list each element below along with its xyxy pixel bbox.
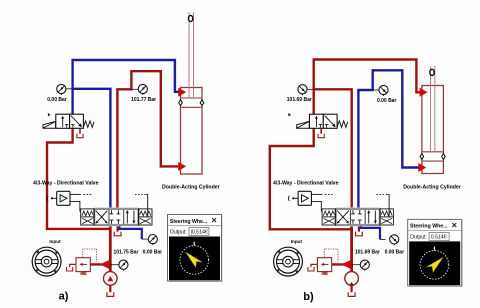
- svg-text:101.77 Bar: 101.77 Bar: [131, 97, 156, 103]
- pressure gauge b top-left 101.69 Bar: [298, 85, 307, 96]
- stub: a pump gauge connection: [110, 264, 119, 266]
- wire: a 3/2 tank stub: [79, 128, 81, 133]
- pressure gauge a tank branch 0.00 Bar: [148, 235, 157, 246]
- tank symbol at b relief valve: [308, 267, 314, 271]
- pressure relief valve a: [76, 258, 90, 275]
- pressure relief valve b: [317, 258, 331, 275]
- svg-text:Double-Acting Cylinder: Double-Acting Cylinder: [162, 184, 220, 190]
- svg-text:0.00 Bar: 0.00 Bar: [385, 249, 405, 255]
- tank symbol under b 3/2 valve: [318, 134, 324, 138]
- pilot line a relief valve (dashed): [83, 249, 97, 262]
- wire: a relief branch line: [90, 263, 110, 265]
- label b): [303, 291, 314, 303]
- output window b (Steering Wheel, arrow NE): [408, 219, 463, 287]
- stub: b pump gauge connection: [352, 264, 361, 266]
- label a): [59, 290, 69, 302]
- svg-text:Output:: Output:: [410, 235, 427, 241]
- wire: a red net B-line (valve B port - gauge - cylinder bottom): [117, 71, 178, 209]
- wire: a blue tank-gauge branch: [119, 225, 141, 239]
- pressure gauge b pump 101.69 Bar: [360, 260, 369, 271]
- steering wheel input a: [32, 247, 61, 276]
- label 4/3-Way - Directional Valve (a): [33, 181, 99, 187]
- port nubs b 4/3 valve: [350, 207, 361, 227]
- svg-text:101.69 Bar: 101.69 Bar: [287, 97, 312, 103]
- wire: a pump to tank: [109, 285, 111, 292]
- wire: b pump pressure line P: [350, 225, 353, 272]
- label 0.00 Bar (b top): [377, 98, 397, 104]
- wire: a pump pressure line P: [109, 225, 112, 272]
- flow arrow into b cylinder top port: [420, 88, 428, 97]
- stub: b 101.69 Bar gauge connection (top left): [307, 88, 314, 90]
- wire: a red 3/2 valve supply loop: [47, 128, 110, 229]
- wire: b blue tank-gauge branch: [361, 225, 380, 239]
- proportional amplifier b: [288, 191, 311, 205]
- wire: b red 3/2 valve supply loop: [270, 128, 352, 229]
- label 0.00 Bar (a top-left): [47, 97, 67, 103]
- tank symbol under a pump: [107, 292, 114, 296]
- svg-text:101.69 Bar: 101.69 Bar: [355, 249, 380, 255]
- label 101.69 Bar (b top-left): [287, 97, 312, 103]
- steering wheel input b: [274, 247, 303, 276]
- label 0.00 Bar (a tank branch): [143, 249, 163, 255]
- svg-text:Double-Acting Cylinder: Double-Acting Cylinder: [403, 184, 461, 190]
- double-acting cylinder b (retracted): [420, 66, 445, 173]
- 4/3-way proportional directional valve a: [81, 209, 152, 225]
- port nubs a 4/3 valve: [109, 207, 120, 227]
- wire: b red net A-line (3/2 valve - gauge - valve A port - cylinder top): [314, 60, 422, 209]
- tank symbol under b 4/3 valve: [356, 232, 363, 236]
- wire: a relief valve to tank: [70, 264, 76, 267]
- svg-text:Input: Input: [291, 239, 303, 244]
- svg-text:|0.514€: |0.514€: [191, 230, 208, 236]
- stub: a 0.00 Bar gauge connection (top left): [66, 88, 73, 90]
- wire: a blue net A-line (3/2 valve - gauge - valve A port - cylinder top): [73, 60, 180, 209]
- label Double-Acting Cylinder (a): [162, 184, 220, 190]
- svg-text:0.00 Bar: 0.00 Bar: [143, 249, 163, 255]
- label 101.77 Bar (a top-right): [131, 97, 156, 103]
- 3/2-way valve a (pedal, spring return): [43, 114, 94, 128]
- svg-text:Input: Input: [49, 239, 61, 244]
- pressure gauge b tank branch 0.00 Bar: [390, 235, 399, 246]
- svg-text:4/3-Way - Directional Valve: 4/3-Way - Directional Valve: [273, 181, 339, 187]
- label Input (a): [49, 239, 61, 244]
- 3/2-way valve b (pedal actuated position): [297, 114, 348, 128]
- pressure gauge a top-right 101.77 Bar: [138, 84, 147, 95]
- flow arrow into a cylinder top port: [178, 88, 186, 97]
- svg-text:a): a): [59, 290, 69, 302]
- svg-text:0.00 Bar: 0.00 Bar: [377, 98, 397, 104]
- wire: b 3/2 tank stub: [320, 128, 322, 133]
- label 4/3-Way - Directional Valve (b): [273, 181, 339, 187]
- proportional amplifier a: [47, 191, 70, 205]
- svg-text:Steering Whe...: Steering Whe...: [170, 219, 208, 225]
- flow arrow on a pump line (pointing left): [100, 260, 109, 269]
- label Double-Acting Cylinder (b): [403, 184, 461, 190]
- stub: a 101.77 Bar gauge connection: [131, 88, 138, 90]
- double-acting cylinder a (extended): [179, 12, 204, 174]
- tank symbol under b pump: [348, 292, 355, 296]
- wire: a valve T tank stub: [116, 225, 118, 232]
- signal line a amplifier to valve solenoids (dashed): [70, 194, 148, 217]
- svg-text:b): b): [303, 291, 314, 303]
- hydraulic pump b: [345, 272, 359, 286]
- pilot line b relief valve (dashed): [324, 249, 338, 262]
- stub: b 0.00 Bar gauge connection (top): [373, 89, 379, 91]
- label 101.75 Bar (a pump): [113, 249, 138, 255]
- flow arrow into a cylinder bottom port: [178, 162, 186, 171]
- pressure gauge b top 0.00 Bar: [379, 85, 388, 96]
- flow arrow on b pump line (pointing left): [341, 260, 350, 269]
- output window a (Steering Wheel, arrow NW): [168, 215, 223, 283]
- stub: b tank gauge connection: [380, 238, 386, 240]
- pressure gauge a top-left 0.00 Bar: [57, 84, 66, 95]
- svg-text:0.514€: 0.514€: [431, 235, 447, 241]
- svg-text:0.00 Bar: 0.00 Bar: [47, 97, 67, 103]
- pressure gauge a pump 101.75 Bar: [119, 260, 128, 271]
- tank symbol at a relief valve: [67, 267, 73, 271]
- flow arrow into b cylinder bottom port: [418, 163, 426, 172]
- signal line b amplifier to valve solenoids (dashed): [311, 194, 389, 217]
- wire: b pump to tank: [351, 285, 353, 292]
- svg-text:101.75 Bar: 101.75 Bar: [113, 249, 138, 255]
- svg-text:4/3-Way - Directional Valve: 4/3-Way - Directional Valve: [33, 181, 99, 187]
- stub: a tank gauge connection: [142, 238, 148, 240]
- svg-text:Output:: Output:: [170, 230, 187, 236]
- label Input (b): [291, 239, 303, 244]
- wire: b blue net B-line (valve B port - gauge - cylinder bottom): [358, 70, 418, 209]
- label 101.69 Bar (b pump): [355, 249, 380, 255]
- label 0.00 Bar (b tank branch): [385, 249, 405, 255]
- svg-text:Steering Whe...: Steering Whe...: [410, 224, 448, 230]
- wire: b relief branch line: [332, 263, 352, 265]
- wire: b relief valve to tank: [311, 264, 317, 267]
- hydraulic pump a: [104, 272, 118, 286]
- tank symbol under a 4/3 valve: [114, 232, 121, 236]
- wire: b valve T tank stub: [358, 225, 360, 232]
- actuation mark a 3/2 valve: [48, 113, 51, 117]
- 4/3-way proportional directional valve b: [322, 209, 393, 225]
- actuation mark b 3/2 valve: [288, 113, 291, 117]
- tank symbol under a 3/2 valve: [77, 134, 83, 138]
